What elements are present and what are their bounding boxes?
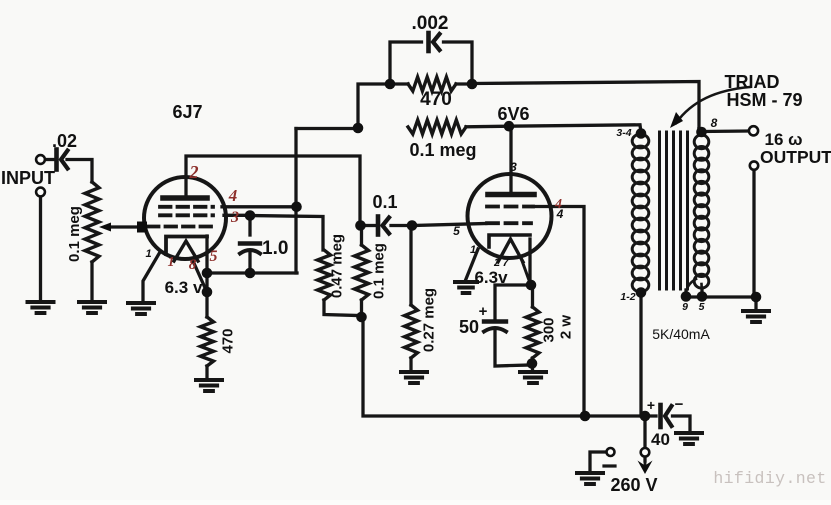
svg-text:−: − bbox=[675, 396, 684, 413]
svg-text:.02: .02 bbox=[52, 131, 77, 151]
svg-text:470: 470 bbox=[420, 89, 452, 110]
svg-text:hifidiy.net: hifidiy.net bbox=[713, 469, 826, 488]
svg-text:5: 5 bbox=[210, 248, 218, 265]
svg-text:7: 7 bbox=[502, 257, 509, 269]
svg-text:260 V: 260 V bbox=[610, 475, 657, 495]
svg-text:0.47 meg: 0.47 meg bbox=[329, 234, 346, 298]
svg-text:5: 5 bbox=[453, 224, 460, 238]
svg-text:+: + bbox=[647, 397, 655, 413]
svg-text:3-4: 3-4 bbox=[616, 127, 631, 139]
svg-text:3: 3 bbox=[230, 209, 239, 226]
svg-text:1-2: 1-2 bbox=[620, 291, 635, 303]
svg-text:0.1 meg: 0.1 meg bbox=[66, 206, 83, 262]
svg-text:OUTPUT: OUTPUT bbox=[760, 147, 831, 167]
svg-text:6V6: 6V6 bbox=[497, 104, 529, 124]
svg-text:0.1 meg: 0.1 meg bbox=[371, 243, 388, 299]
svg-text:50: 50 bbox=[459, 317, 479, 337]
svg-text:1: 1 bbox=[145, 248, 151, 260]
svg-text:5: 5 bbox=[699, 301, 705, 313]
svg-text:+: + bbox=[479, 303, 488, 320]
svg-text:1: 1 bbox=[470, 244, 476, 256]
svg-text:9: 9 bbox=[682, 301, 688, 313]
svg-text:4: 4 bbox=[228, 186, 238, 205]
svg-text:1.0: 1.0 bbox=[262, 238, 288, 259]
svg-text:300: 300 bbox=[541, 317, 558, 342]
svg-text:INPUT: INPUT bbox=[1, 168, 55, 188]
svg-text:8: 8 bbox=[711, 116, 718, 130]
svg-text:0.1: 0.1 bbox=[372, 192, 397, 212]
svg-text:.002: .002 bbox=[412, 13, 449, 34]
svg-text:40: 40 bbox=[651, 430, 670, 449]
svg-text:0.27 meg: 0.27 meg bbox=[421, 288, 438, 352]
svg-text:8: 8 bbox=[189, 257, 197, 273]
svg-text:6.3v: 6.3v bbox=[474, 268, 508, 287]
svg-text:2: 2 bbox=[189, 162, 199, 182]
svg-text:1: 1 bbox=[168, 255, 175, 270]
svg-text:6J7: 6J7 bbox=[172, 102, 202, 122]
svg-text:2 w: 2 w bbox=[558, 315, 575, 340]
svg-text:3: 3 bbox=[510, 160, 517, 174]
svg-text:5K/40mA: 5K/40mA bbox=[652, 326, 710, 342]
svg-text:4: 4 bbox=[556, 207, 564, 221]
svg-text:0.1 meg: 0.1 meg bbox=[409, 140, 476, 160]
svg-text:6.3 v: 6.3 v bbox=[165, 278, 203, 297]
svg-text:470: 470 bbox=[220, 328, 237, 353]
svg-text:2: 2 bbox=[493, 257, 500, 269]
svg-text:TRIAD: TRIAD bbox=[725, 72, 780, 92]
svg-text:HSM - 79: HSM - 79 bbox=[726, 90, 802, 110]
